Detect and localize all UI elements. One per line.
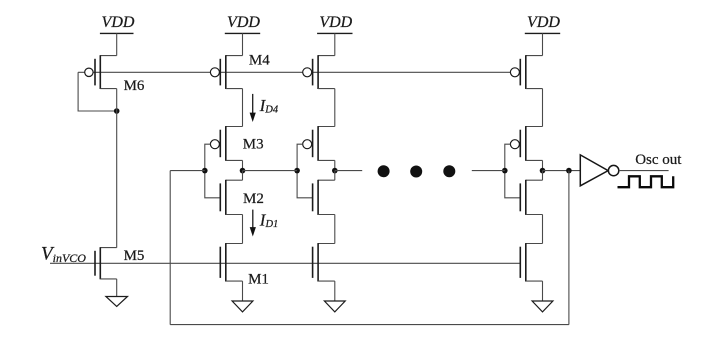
wire feedback to stage1 input (170, 170, 205, 172)
wire feedback right vertical (568, 171, 570, 325)
wire output node to inverter NMOS drain (242, 171, 244, 181)
transistor stage2 inverter PMOS (303, 126, 335, 161)
svg-text:M5: M5 (124, 248, 145, 264)
wire inverter input gate tap (505, 144, 521, 198)
ellipsis dot 2 (410, 166, 422, 178)
wire inverter PMOS drain to output node (242, 160, 244, 170)
inverter buffer U1 (580, 155, 608, 186)
wire feedback bottom (170, 324, 569, 326)
transistor stage2 PMOS current source (303, 55, 335, 89)
transistor M1 (220, 243, 242, 281)
wire NMOS bias net (VinVCO to current-sink gates) (50, 262, 520, 264)
transistor M4 (210, 55, 242, 89)
ground (stage source) (324, 301, 345, 312)
wire (242, 33, 244, 55)
transistor stageN inverter NMOS (520, 180, 542, 215)
svg-text:VDD: VDD (319, 14, 352, 31)
wire inverter NMOS source to current sink (542, 215, 544, 244)
node stage input junction (502, 168, 508, 174)
wire (334, 33, 336, 55)
wire buffer output (619, 170, 669, 172)
svg-text:M4: M4 (249, 52, 270, 68)
wire inverter NMOS source to current sink (334, 215, 336, 244)
wire output node to inverter NMOS drain (334, 171, 336, 181)
node stage output (240, 168, 246, 174)
square wave symbol (618, 176, 674, 187)
svg-text:Osc out: Osc out (635, 152, 682, 168)
transistor stageN inverter PMOS (510, 126, 542, 161)
ellipsis dot 3 (443, 165, 455, 177)
wire inverter input gate tap (205, 144, 221, 198)
ground (stage source) (532, 301, 553, 312)
transistor stage2 inverter NMOS (313, 180, 335, 215)
transistor M5 (VinVCO input NMOS) (95, 247, 117, 279)
wire (116, 33, 118, 55)
node stage input junction (294, 168, 300, 174)
ground (stage source) (232, 301, 253, 312)
transistor M3 (210, 126, 242, 161)
node stage output (540, 168, 546, 174)
VDD rail bar (100, 32, 134, 34)
wire stage1 output to stage2 input (243, 170, 298, 172)
svg-text:VDD: VDD (102, 14, 135, 31)
wire drain of current source to inverter PMOS (334, 89, 336, 127)
node stage output (332, 168, 338, 174)
wire M6 gate-to-drain loop (78, 72, 117, 111)
svg-text:M6: M6 (124, 78, 145, 94)
transistor stageN PMOS current source (510, 55, 542, 89)
wire drain of current source to inverter PMOS (242, 89, 244, 127)
ground (M5 source) (106, 297, 128, 307)
ellipsis dot 1 (378, 165, 390, 177)
wire feedback left vertical (169, 171, 171, 325)
wire inverter PMOS drain to output node (334, 160, 336, 170)
wire inverter NMOS source to current sink (242, 215, 244, 244)
inverter bubble (608, 165, 618, 175)
wire inverter input gate tap (297, 144, 313, 198)
svg-text:M2: M2 (243, 191, 264, 207)
VDD rail bar (317, 32, 352, 34)
current arrow ID1 (252, 210, 254, 230)
wire drain of current source to inverter PMOS (542, 89, 544, 127)
node M6 drain junction (114, 108, 120, 114)
transistor M6 (diode-connected PMOS) (85, 55, 117, 89)
wire PMOS bias net (M6 gate to current-source gates) (78, 71, 510, 73)
wire inverter PMOS drain to output node (542, 160, 544, 170)
wire ellipsis to last stage input (472, 170, 505, 172)
svg-text:M1: M1 (248, 272, 269, 288)
wire M6 drain to M5 drain (116, 89, 118, 248)
wire last stage output to buffer (543, 170, 581, 172)
VDD rail bar (525, 32, 560, 34)
wire (542, 33, 544, 55)
transistor M2 (220, 180, 242, 215)
wire current sink source to ground (542, 281, 544, 301)
node stage input junction (202, 168, 208, 174)
svg-text:VDD: VDD (227, 14, 260, 31)
transistor stage2 NMOS current sink (313, 243, 335, 281)
wire current sink source to ground (334, 281, 336, 301)
current arrow ID4 (252, 94, 254, 116)
wire stage2 output toward ellipsis (335, 170, 362, 172)
wire M5 source to ground (116, 279, 118, 297)
VDD rail bar (225, 32, 260, 34)
transistor stageN NMOS current sink (520, 243, 542, 281)
wire current sink source to ground (242, 281, 244, 301)
svg-text:VDD: VDD (527, 14, 560, 31)
wire output node to inverter NMOS drain (542, 171, 544, 181)
svg-text:M3: M3 (243, 137, 264, 153)
node feedback tap (566, 168, 572, 174)
